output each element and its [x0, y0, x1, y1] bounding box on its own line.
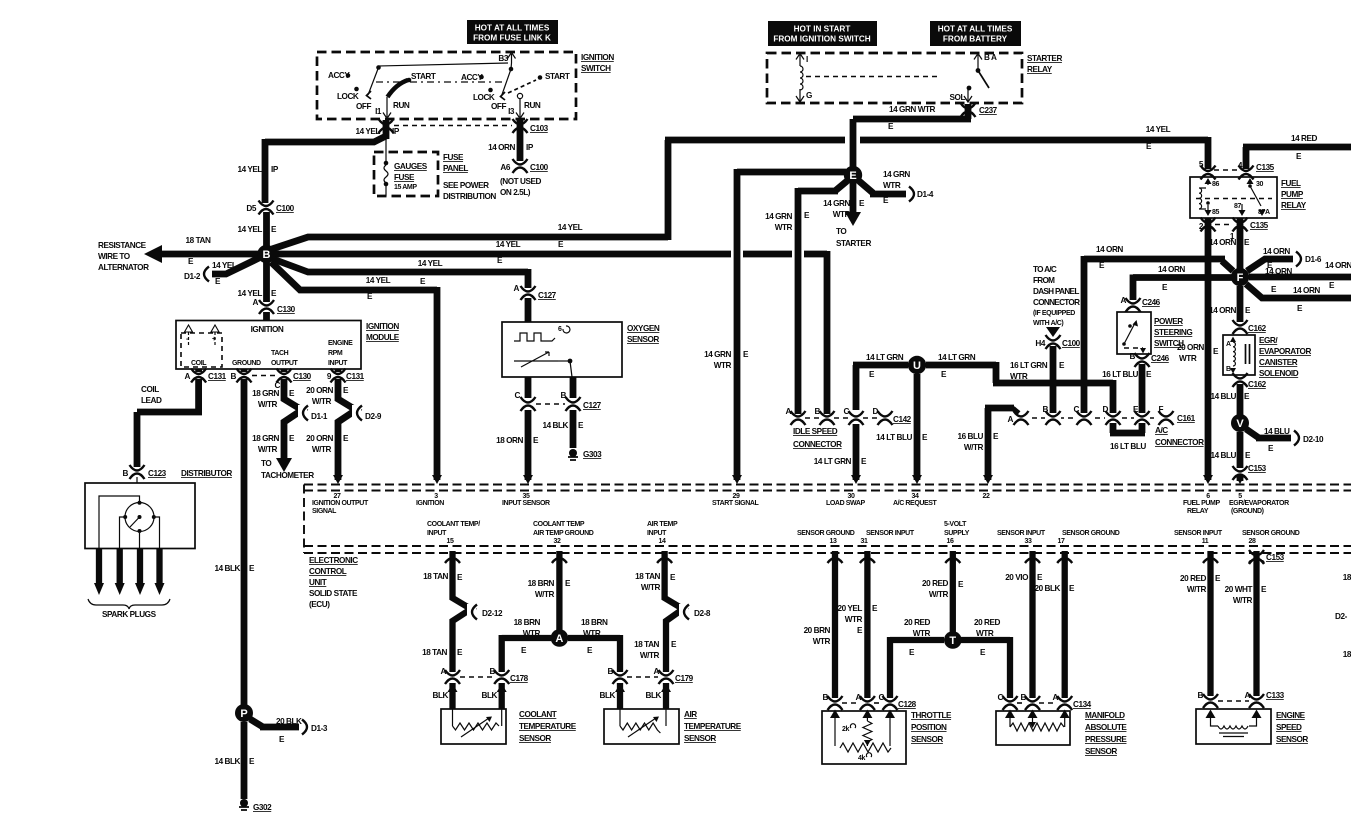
- svg-text:LEAD: LEAD: [141, 396, 162, 405]
- svg-text:14 BLK: 14 BLK: [214, 564, 240, 573]
- wire 14 BLU EGR to node V: [1210, 384, 1250, 415]
- svg-text:16 BLU: 16 BLU: [957, 432, 983, 441]
- ECU pin 35: [502, 475, 550, 507]
- svg-text:AIR TEMP GROUND: AIR TEMP GROUND: [533, 530, 594, 537]
- fuse panel label: [443, 153, 496, 201]
- svg-text:ENGINE: ENGINE: [1276, 711, 1306, 720]
- wire 20 RED W/TR pin 16 to node T: [922, 551, 964, 632]
- right edge cut labels: [1335, 573, 1351, 659]
- svg-text:WTR: WTR: [813, 637, 831, 646]
- svg-text:DASH PANEL: DASH PANEL: [1033, 287, 1079, 296]
- ECU pin 11 label: [1174, 530, 1223, 545]
- svg-text:C246: C246: [1151, 354, 1170, 363]
- svg-text:(IF EQUIPPED: (IF EQUIPPED: [1033, 310, 1075, 317]
- svg-text:14 YEL: 14 YEL: [212, 261, 237, 270]
- svg-text:COIL: COIL: [191, 360, 207, 367]
- svg-text:14 GRN: 14 GRN: [823, 199, 850, 208]
- wire 18 ORN oxygen sensor to ECU pin 35: [496, 410, 539, 480]
- svg-text:INPUT: INPUT: [328, 360, 348, 367]
- fuel pump relay interior: [1196, 178, 1272, 216]
- svg-text:18 BRN: 18 BRN: [514, 618, 541, 627]
- svg-text:B: B: [123, 469, 129, 478]
- TPS pin A connector: [842, 693, 875, 710]
- svg-text:20 RED: 20 RED: [922, 579, 949, 588]
- svg-text:B: B: [561, 391, 567, 400]
- svg-text:C246: C246: [1142, 298, 1161, 307]
- wire 14 BLU node V to C153: [1210, 432, 1251, 468]
- wire 16 LT BLU PSS to A/C connector pin E: [1102, 343, 1204, 413]
- svg-text:GROUND: GROUND: [232, 360, 261, 367]
- wire BLK coolant sensor A: [433, 683, 458, 709]
- svg-text:IGNITION: IGNITION: [251, 325, 284, 334]
- svg-text:HOT AT ALL TIMES: HOT AT ALL TIMES: [475, 24, 550, 33]
- svg-text:G302: G302: [253, 803, 272, 812]
- ECU pin 17 label: [1058, 530, 1120, 545]
- svg-text:FROM: FROM: [1033, 276, 1055, 285]
- connector A6 C100: [500, 159, 549, 197]
- svg-text:A/C REQUEST: A/C REQUEST: [893, 500, 938, 507]
- svg-text:RUN: RUN: [524, 101, 541, 110]
- svg-text:C237: C237: [979, 106, 998, 115]
- svg-text:A: A: [1053, 693, 1059, 702]
- svg-text:C162: C162: [1248, 324, 1267, 333]
- svg-text:ALTERNATOR: ALTERNATOR: [98, 263, 149, 272]
- ignition module pin 9 connector C131: [327, 369, 365, 383]
- svg-text:COOLANT TEMP: COOLANT TEMP: [533, 521, 585, 528]
- svg-text:B: B: [231, 372, 237, 381]
- svg-text:TACH: TACH: [271, 350, 289, 357]
- svg-text:SENSOR: SENSOR: [684, 734, 716, 743]
- svg-text:ELECTRONIC: ELECTRONIC: [309, 556, 358, 565]
- ESS pin A connector C133: [1218, 691, 1285, 708]
- svg-text:C100: C100: [1062, 339, 1081, 348]
- svg-text:A: A: [555, 633, 563, 645]
- svg-text:TACHOMETER: TACHOMETER: [261, 471, 314, 480]
- svg-text:FROM BATTERY: FROM BATTERY: [943, 35, 1008, 44]
- svg-text:14 ORN: 14 ORN: [488, 143, 515, 152]
- svg-text:WTR: WTR: [913, 629, 931, 638]
- connector A C130: [253, 298, 296, 314]
- svg-text:OUTPUT: OUTPUT: [271, 360, 299, 367]
- svg-text:W/TR: W/TR: [1233, 596, 1253, 605]
- svg-text:LOCK: LOCK: [337, 92, 359, 101]
- svg-text:31: 31: [861, 538, 868, 545]
- wire 14 GRN WTR node E to ECU pin 29: [704, 169, 846, 480]
- svg-text:THROTTLE: THROTTLE: [911, 711, 952, 720]
- svg-text:SEE POWER: SEE POWER: [443, 181, 489, 190]
- svg-text:RPM: RPM: [328, 350, 343, 357]
- svg-text:POWER: POWER: [1154, 317, 1183, 326]
- ECU pin 27: [312, 475, 369, 515]
- svg-text:WTR: WTR: [845, 615, 863, 624]
- svg-text:30: 30: [1256, 181, 1263, 188]
- svg-text:14 GRN: 14 GRN: [765, 212, 792, 221]
- wire 14 GRN WTR node E to starter (arrow down): [823, 183, 871, 248]
- wire 20 BLK pin 17 to MAP pin A: [1034, 551, 1075, 698]
- wire 14 YEL node B to fuel pump relay pin 5 (L1): [272, 125, 1208, 249]
- svg-text:C135: C135: [1256, 163, 1275, 172]
- svg-text:18: 18: [1343, 650, 1351, 659]
- svg-text:SENSOR INPUT: SENSOR INPUT: [1174, 530, 1223, 537]
- svg-text:C: C: [515, 391, 521, 400]
- svg-text:B: B: [1021, 693, 1027, 702]
- svg-text:18 ORN: 18 ORN: [496, 436, 523, 445]
- svg-text:D1-1: D1-1: [311, 412, 328, 421]
- svg-text:5-VOLT: 5-VOLT: [944, 521, 967, 528]
- svg-text:MANIFOLD: MANIFOLD: [1085, 711, 1125, 720]
- wire 14 BLU node V to D2-10: [1246, 427, 1324, 453]
- svg-text:WTR: WTR: [883, 181, 901, 190]
- svg-text:SUPPLY: SUPPLY: [944, 530, 970, 537]
- wire 20 VIO pin 33 to MAP pin B: [1005, 551, 1043, 698]
- svg-text:EVAPORATOR: EVAPORATOR: [1259, 347, 1311, 356]
- A/C connector pin E: [1133, 405, 1150, 425]
- svg-text:IGNITION: IGNITION: [416, 500, 444, 507]
- ECU pin 3: [416, 475, 444, 507]
- svg-text:5: 5: [1238, 493, 1242, 500]
- svg-text:B3: B3: [498, 54, 508, 63]
- svg-text:WTR: WTR: [1010, 372, 1028, 381]
- oxygen sensor box: [502, 322, 660, 377]
- wire 18 GRN W/TR tach output to D1-1 and tachometer: [252, 379, 328, 480]
- wire 14 YEL from I1 down-left: [265, 136, 386, 142]
- svg-text:FROM FUSE LINK K: FROM FUSE LINK K: [473, 34, 551, 43]
- svg-text:C123: C123: [148, 469, 167, 478]
- svg-text:SENSOR: SENSOR: [1276, 735, 1308, 744]
- svg-text:C: C: [1074, 405, 1080, 414]
- power steering switch pin A connector C246: [1121, 296, 1161, 312]
- node T: [944, 631, 962, 649]
- wire I1 to fuse panel vertical: [385, 132, 387, 163]
- svg-text:IGNITION: IGNITION: [366, 322, 399, 331]
- ECU pin 29: [712, 475, 760, 507]
- svg-text:SPEED: SPEED: [1276, 723, 1302, 732]
- A/C connector pin D: [1103, 405, 1121, 425]
- svg-text:C133: C133: [1266, 691, 1285, 700]
- svg-text:14 BLK: 14 BLK: [214, 757, 240, 766]
- svg-text:18 TAN: 18 TAN: [186, 236, 211, 245]
- A/C connector pin A: [1008, 411, 1029, 425]
- svg-text:D1-6: D1-6: [1305, 255, 1322, 264]
- svg-text:85: 85: [1212, 209, 1219, 216]
- svg-text:CONTROL: CONTROL: [309, 567, 347, 576]
- oxygen sensor pin B connector C127: [561, 377, 602, 411]
- wire 16 BLU W/TR ECU pin 22 to A/C connector pin A: [957, 408, 1019, 480]
- wire 20 YEL WTR pin 31 to TPS pin A: [838, 551, 878, 698]
- svg-text:INPUT SENSOR: INPUT SENSOR: [502, 500, 550, 507]
- idle speed connector pin D C142: [863, 407, 912, 425]
- ground G302: [239, 799, 272, 812]
- svg-text:B A: B A: [984, 53, 997, 62]
- svg-text:14 LT GRN: 14 LT GRN: [938, 353, 976, 362]
- wire 20 BRN WTR pin 13 to TPS pin B: [804, 551, 835, 698]
- svg-text:B: B: [490, 667, 496, 676]
- svg-text:87A: 87A: [1258, 209, 1270, 216]
- ignition module pin B connector: [231, 369, 277, 383]
- ignition switch box: [317, 52, 614, 119]
- wire 14 LT GRN idle speed pin C to ECU pin 30: [814, 424, 867, 480]
- svg-text:G: G: [806, 91, 812, 100]
- svg-text:34: 34: [912, 493, 919, 500]
- module stubs into box: [199, 369, 338, 372]
- wire 14 BLK ground from module pin B: [214, 379, 255, 705]
- svg-text:TO: TO: [836, 227, 847, 236]
- svg-text:35: 35: [523, 493, 530, 500]
- svg-text:WIRE TO: WIRE TO: [98, 252, 131, 261]
- svg-text:CONNECTOR: CONNECTOR: [1155, 438, 1204, 447]
- svg-text:IGNITION: IGNITION: [581, 53, 614, 62]
- svg-text:29: 29: [733, 493, 740, 500]
- svg-text:A: A: [856, 693, 862, 702]
- wire 14 YEL node B up to C100: [238, 139, 279, 246]
- spark plug wires: [88, 549, 170, 620]
- svg-text:BLK: BLK: [600, 691, 616, 700]
- svg-text:HOT AT ALL TIMES: HOT AT ALL TIMES: [938, 25, 1013, 34]
- svg-text:SPARK PLUGS: SPARK PLUGS: [102, 610, 157, 619]
- MAP pin B connector: [1017, 693, 1041, 710]
- svg-text:C161: C161: [1177, 414, 1196, 423]
- wire 14 GRN WTR from C237 to node E: [853, 104, 971, 170]
- svg-text:IP: IP: [526, 143, 534, 152]
- wire 14 ORN node F to EGR solenoid: [1209, 286, 1251, 322]
- svg-text:INPUT: INPUT: [427, 530, 447, 537]
- power label HOT AT ALL TIMES FROM FUSE LINK K: [467, 20, 558, 44]
- svg-text:SENSOR INPUT: SENSOR INPUT: [866, 530, 915, 537]
- svg-text:14: 14: [659, 538, 666, 545]
- TPS pin B connector: [823, 693, 843, 710]
- svg-text:D1-4: D1-4: [917, 190, 934, 199]
- svg-text:RELAY: RELAY: [1027, 65, 1053, 74]
- ECU bottom boundary: [304, 546, 1351, 553]
- wire 14 BLK node P to G302: [214, 722, 255, 799]
- fuel pump relay pin 2 connector: [1199, 218, 1233, 232]
- svg-text:13: 13: [830, 538, 837, 545]
- svg-text:14 BLU: 14 BLU: [1210, 451, 1236, 460]
- svg-text:TO: TO: [261, 459, 272, 468]
- svg-text:18 GRN: 18 GRN: [252, 389, 279, 398]
- svg-text:DISTRIBUTION: DISTRIBUTION: [443, 192, 496, 201]
- svg-text:C100: C100: [276, 204, 295, 213]
- ECU pin 28 label: [1242, 530, 1300, 545]
- svg-text:FUSE: FUSE: [394, 173, 415, 182]
- svg-text:14 RED: 14 RED: [1291, 134, 1318, 143]
- svg-text:14 GRN: 14 GRN: [883, 170, 910, 179]
- wire 14 ORN node F right upper: [1249, 261, 1351, 294]
- svg-text:A: A: [514, 284, 520, 293]
- svg-text:OFF: OFF: [491, 102, 506, 111]
- svg-text:W/TR: W/TR: [640, 651, 660, 660]
- svg-text:C131: C131: [346, 372, 365, 381]
- wire 14 YEL node B to oxygen sensor C127 (L3): [273, 259, 528, 288]
- svg-text:BLK: BLK: [482, 691, 498, 700]
- svg-text:W/TR: W/TR: [641, 583, 661, 592]
- svg-text:20 BLK: 20 BLK: [276, 717, 302, 726]
- svg-text:14 LT GRN: 14 LT GRN: [866, 353, 904, 362]
- svg-text:W/TR: W/TR: [964, 443, 984, 452]
- svg-text:20 ORN: 20 ORN: [306, 386, 333, 395]
- svg-text:20 RED: 20 RED: [1180, 574, 1207, 583]
- wire 18 BRN WTR node A to air sensor B: [568, 618, 620, 672]
- svg-text:A/C: A/C: [1155, 426, 1168, 435]
- wire 14 YEL node B to idle speed connector pin B (L2): [275, 240, 827, 414]
- svg-text:14 ORN: 14 ORN: [1209, 306, 1236, 315]
- svg-text:W/TR: W/TR: [1187, 585, 1207, 594]
- engine speed sensor box: [1196, 709, 1308, 744]
- svg-text:14 YEL: 14 YEL: [238, 289, 263, 298]
- svg-text:C179: C179: [675, 674, 694, 683]
- svg-text:C: C: [844, 407, 850, 416]
- svg-text:20 BLK: 20 BLK: [1034, 584, 1060, 593]
- ECU pin 33 label: [997, 530, 1046, 545]
- svg-text:16: 16: [947, 538, 954, 545]
- svg-text:32: 32: [554, 538, 561, 545]
- ECU label: [309, 556, 358, 609]
- air sensor pin B connector: [608, 667, 628, 684]
- svg-text:87: 87: [1234, 203, 1241, 210]
- svg-text:C: C: [879, 693, 885, 702]
- wire 14 ORN node F to D1-6: [1247, 247, 1322, 271]
- svg-text:ABSOLUTE: ABSOLUTE: [1085, 723, 1127, 732]
- wire 20 RED W/TR pin 11 to ESS pin B: [1180, 551, 1221, 696]
- svg-text:D2-: D2-: [1335, 612, 1348, 621]
- svg-text:SENSOR: SENSOR: [911, 735, 943, 744]
- svg-text:WTR: WTR: [833, 210, 851, 219]
- svg-text:WTR: WTR: [976, 629, 994, 638]
- ignition switch left half: [328, 63, 508, 119]
- svg-text:D2-8: D2-8: [694, 609, 711, 618]
- svg-text:H4: H4: [1035, 339, 1045, 348]
- svg-text:14 BLK: 14 BLK: [542, 421, 568, 430]
- node V: [1231, 414, 1249, 432]
- wire 14 YEL node B down to ignition module: [238, 262, 277, 321]
- svg-text:COOLANT TEMP/: COOLANT TEMP/: [427, 521, 480, 528]
- svg-text:14 BLU: 14 BLU: [1264, 427, 1290, 436]
- svg-text:14 YEL: 14 YEL: [418, 259, 443, 268]
- ECU pin 32 label: [533, 521, 594, 545]
- svg-text:B: B: [815, 407, 821, 416]
- connector D5 C100: [246, 201, 294, 215]
- svg-text:D1-3: D1-3: [311, 724, 328, 733]
- ECU lower pin flares: [445, 558, 1264, 563]
- svg-text:D1-2: D1-2: [184, 272, 201, 281]
- svg-text:6: 6: [1206, 493, 1210, 500]
- idle speed connector label: [793, 427, 842, 449]
- svg-text:WTR: WTR: [714, 361, 732, 370]
- svg-text:TEMPERATURE: TEMPERATURE: [519, 722, 577, 731]
- idle speed connector pin A: [786, 407, 806, 425]
- wire 20 RED WTR node T to TPS pin C: [890, 618, 944, 698]
- svg-text:A: A: [786, 407, 792, 416]
- connector C237: [960, 103, 998, 117]
- svg-text:B: B: [1226, 366, 1231, 373]
- wire 14 ORN relay pin 1 to node F: [1209, 218, 1250, 269]
- svg-text:START: START: [411, 72, 436, 81]
- svg-text:B: B: [1198, 691, 1204, 700]
- svg-text:C134: C134: [1073, 700, 1092, 709]
- wire 14 GRN WTR node E to D1-4: [859, 170, 934, 205]
- A/C connector pin B: [1043, 405, 1061, 425]
- svg-text:18 TAN: 18 TAN: [634, 640, 659, 649]
- oxygen sensor pin C connector C127: [515, 377, 565, 411]
- svg-text:OXYGEN: OXYGEN: [627, 324, 660, 333]
- svg-text:B: B: [1043, 405, 1049, 414]
- svg-text:D5: D5: [246, 204, 256, 213]
- svg-text:CONNECTOR: CONNECTOR: [1033, 298, 1080, 307]
- wire 14 YEL node B to ECU pin 3 (L4): [271, 262, 437, 480]
- svg-text:A: A: [1008, 415, 1014, 424]
- svg-text:TEMPERATURE: TEMPERATURE: [684, 722, 742, 731]
- svg-text:B: B: [263, 249, 271, 261]
- wire 14 YEL node B to D1-2: [184, 258, 259, 286]
- svg-text:COOLANT: COOLANT: [519, 710, 557, 719]
- manifold absolute pressure sensor box: [996, 710, 1127, 757]
- svg-text:WTR: WTR: [523, 629, 541, 638]
- wire 20 RED WTR node T to MAP pin C: [961, 618, 1010, 698]
- svg-text:C142: C142: [893, 415, 912, 424]
- svg-text:IP: IP: [271, 165, 279, 174]
- svg-text:START: START: [545, 72, 570, 81]
- svg-text:18 BRN: 18 BRN: [528, 579, 555, 588]
- svg-text:W/TR: W/TR: [535, 590, 555, 599]
- svg-text:18 TAN: 18 TAN: [423, 572, 448, 581]
- fuel pump relay pin 4 connector C135: [1214, 161, 1275, 180]
- ignition switch right half: [376, 53, 570, 119]
- svg-text:A: A: [441, 667, 447, 676]
- svg-text:20 VIO: 20 VIO: [1005, 573, 1029, 582]
- svg-text:BLK: BLK: [646, 691, 662, 700]
- node U: [908, 356, 926, 374]
- svg-text:W/TR: W/TR: [312, 397, 332, 406]
- svg-text:14 YEL: 14 YEL: [496, 240, 521, 249]
- connector C162 top: [1232, 320, 1267, 334]
- svg-text:(ECU): (ECU): [309, 600, 330, 609]
- svg-text:U: U: [913, 360, 921, 372]
- svg-text:15 AMP: 15 AMP: [394, 184, 417, 191]
- fuel pump relay box: [1190, 177, 1307, 218]
- svg-text:PRESSURE: PRESSURE: [1085, 735, 1127, 744]
- connector C103 at I3: [512, 119, 549, 133]
- svg-text:PUMP: PUMP: [1281, 190, 1304, 199]
- svg-text:C178: C178: [510, 674, 529, 683]
- node P: [235, 704, 253, 722]
- svg-text:16 LT GRN: 16 LT GRN: [1010, 361, 1048, 370]
- wire 14 BLK to G303: [542, 410, 584, 448]
- svg-text:28: 28: [1249, 538, 1256, 545]
- ECU pin 15 label: [427, 521, 480, 545]
- svg-text:T: T: [949, 635, 956, 647]
- wire 20 ORN W/TR rpm input to D2-9 and ECU pin 27: [306, 379, 382, 480]
- svg-text:C153: C153: [1266, 553, 1285, 562]
- svg-text:6: 6: [558, 326, 562, 333]
- svg-text:IDLE SPEED: IDLE SPEED: [793, 427, 838, 436]
- svg-text:P: P: [240, 708, 247, 720]
- A/C connector dashes: [1014, 417, 1164, 419]
- svg-text:CANISTER: CANISTER: [1259, 358, 1298, 367]
- svg-text:14 GRN: 14 GRN: [704, 350, 731, 359]
- MAP pin C connector: [998, 693, 1018, 710]
- air temperature sensor box: [604, 709, 742, 744]
- ECU top boundary: [304, 485, 1351, 554]
- A/C connector pin C: [1074, 405, 1092, 425]
- svg-text:14 YEL: 14 YEL: [238, 225, 263, 234]
- svg-text:14 ORN: 14 ORN: [1325, 261, 1351, 270]
- svg-text:14 YEL: 14 YEL: [1146, 125, 1171, 134]
- svg-text:C127: C127: [583, 401, 602, 410]
- svg-text:START SIGNAL: START SIGNAL: [712, 500, 760, 507]
- wire 14 ORN node F to power steering switch: [1133, 265, 1232, 300]
- wire 20 BLK node P to D1-3: [250, 717, 328, 744]
- wire 16 LT GRN WTR node U to A/C connector pin D: [926, 353, 1113, 413]
